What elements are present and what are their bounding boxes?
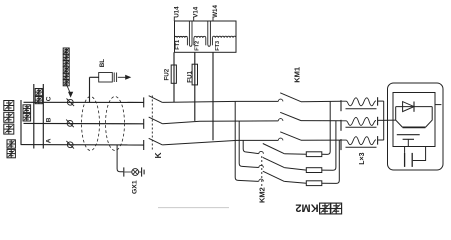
IGBT gate T — [403, 138, 414, 140]
cable dashed ellipse 2 — [106, 97, 125, 151]
svg-text:B: B — [46, 117, 53, 122]
lamp GX1 with plates — [123, 167, 125, 176]
terminal circle phase B — [67, 121, 73, 127]
inductor L1 — [340, 100, 342, 111]
CT brackets and hairpin 2 — [205, 38, 207, 46]
leader arrow to terminal — [67, 85, 71, 93]
wire inductor C to bus — [378, 100, 384, 102]
terminal tick U14 — [173, 17, 175, 22]
svg-text:FT3: FT3 — [215, 41, 221, 51]
terminal tick V14 — [193, 17, 195, 22]
wire resistor R3 to riser — [322, 140, 340, 183]
label input terminals 输入接线端子 — [63, 48, 69, 54]
inductor L2 — [340, 120, 342, 131]
wire phase B after switch — [162, 121, 278, 124]
wire resistor R2 to riser — [322, 121, 336, 171]
module outer box — [388, 83, 444, 170]
wire to resistor R1 — [284, 153, 306, 156]
contactor KM1 pole 1 — [278, 99, 283, 101]
wire phase B to inductor — [301, 120, 341, 122]
label bypass 旁路KM2 (upside down) — [295, 202, 341, 214]
wire phase C after switch — [162, 101, 278, 102]
wire phase A after switch — [162, 140, 278, 145]
svg-text:V14: V14 — [193, 6, 200, 18]
IGBT emitter bar — [397, 134, 420, 136]
bus bar vertical — [383, 101, 385, 140]
wire phase A to inductor — [301, 139, 341, 141]
CT brackets and hairpin 1 — [186, 38, 188, 46]
wire inductor A to bus — [378, 139, 384, 141]
svg-text:FU2: FU2 — [164, 68, 171, 80]
label main-circuit 主回路 (vertical text) — [4, 101, 14, 111]
wire to resistor R2 — [284, 168, 306, 171]
resistor R3 — [306, 181, 322, 186]
left frame vertical 2 — [33, 84, 35, 149]
resistor R1 — [306, 152, 322, 157]
contactor KM1 pole 2 — [278, 119, 283, 121]
module inner box — [393, 93, 435, 147]
CT winding segment 1 — [175, 36, 188, 37]
CT box frame — [175, 21, 237, 52]
wire tap phase C to KM2 row3 — [235, 101, 258, 181]
switch K pole 3 — [143, 140, 145, 150]
IGBT collector bar — [403, 126, 426, 128]
fuse FU2 wire — [173, 52, 175, 102]
switch K mechanical link (dashed) — [151, 96, 153, 152]
svg-text:U14: U14 — [173, 6, 180, 18]
contactor KM1 pole 3 — [278, 138, 283, 140]
IGBT loop right — [425, 107, 432, 128]
capacitor C1 leads — [404, 147, 406, 153]
wire phase A left segment — [21, 144, 144, 146]
svg-text:L×3: L×3 — [359, 152, 366, 164]
svg-text:K: K — [153, 152, 163, 159]
label 绿色 phase B colour — [23, 105, 31, 113]
switch K pole 2 — [143, 119, 145, 129]
contactor KM2 pole 1 — [259, 151, 264, 153]
fuse FU2 body — [171, 65, 176, 83]
svg-text:GX1: GX1 — [131, 180, 138, 194]
svg-text:KM2: KM2 — [295, 202, 318, 214]
resistor R2 — [306, 168, 322, 173]
cable dashed ellipse 1 — [82, 97, 100, 151]
diode D1 — [403, 102, 414, 112]
left frame vertical 3 — [42, 84, 44, 149]
CT winding segment 3 — [212, 36, 236, 38]
switch K pole 1 — [143, 97, 145, 107]
fuse FU1 body — [192, 64, 197, 85]
wire lamp branch from phase A — [117, 145, 123, 172]
fuse FU1 wire — [194, 52, 196, 121]
label 黄色 phase A colour — [7, 140, 15, 148]
surge arrester BL — [89, 77, 91, 102]
svg-text:A: A — [46, 138, 53, 143]
wire phase B left segment — [24, 122, 144, 124]
svg-text:C: C — [46, 96, 53, 101]
contactor KM2 pole 3 — [259, 179, 264, 181]
label 红色 phase C colour — [35, 89, 42, 96]
left frame vertical 1 — [20, 100, 22, 145]
wire inductor B into module — [378, 119, 396, 121]
capacitor C1 plates — [404, 153, 406, 167]
svg-text:FT1: FT1 — [175, 40, 181, 50]
KM2 mechanical link (dashed) — [261, 156, 263, 189]
terminal circle phase A — [67, 142, 73, 148]
svg-text:FT2: FT2 — [195, 41, 201, 51]
svg-text:KM2: KM2 — [257, 187, 266, 203]
IGBT loop left — [396, 107, 403, 128]
module link tick — [435, 104, 441, 106]
contactor KM2 pole 2 — [259, 165, 264, 167]
svg-text:W14: W14 — [212, 5, 219, 18]
terminal circle phase C — [67, 99, 73, 105]
wire phase C left segment — [24, 101, 144, 103]
svg-text:BL: BL — [99, 59, 106, 68]
wire resistor R1 to riser — [322, 101, 330, 154]
wire phase C to inductor — [301, 100, 341, 103]
svg-text:KM1: KM1 — [293, 67, 302, 83]
fold line artifact — [158, 207, 229, 209]
inductor L3 — [340, 139, 342, 150]
wire tap phase B to KM2 row2 — [239, 121, 258, 168]
wire to resistor R3 — [284, 181, 306, 183]
diode wire — [396, 106, 433, 108]
svg-text:FU1: FU1 — [187, 71, 194, 83]
wire tap phase A to KM2 row1 — [243, 140, 258, 153]
wire tap W to phase A — [212, 52, 214, 140]
CT winding segment 2 — [194, 36, 206, 37]
terminal tick W14 — [212, 17, 214, 22]
